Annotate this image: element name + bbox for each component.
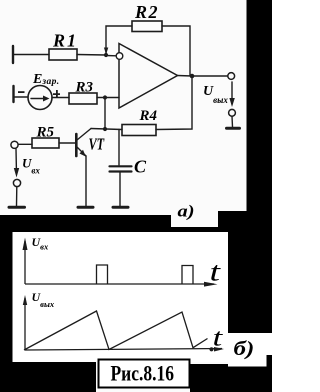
terminal bar R1 input: [12, 46, 14, 63]
sawtooth waveform: [24, 311, 208, 350]
black right band of waveform section: [228, 233, 272, 333]
caption box: [99, 360, 190, 388]
wire opamp output to node: [178, 75, 193, 78]
terminal bar E source: [12, 86, 14, 102]
source E circle: [28, 86, 52, 110]
wire Uin arrow shaft: [15, 149, 18, 174]
axis Uout vertical: [24, 298, 26, 350]
wire R5 to base: [59, 142, 75, 144]
wire output node down to R4: [156, 76, 192, 130]
black left strip of lower section: [0, 232, 13, 392]
arrowhead into inverting node: [104, 48, 108, 55]
transistor emitter arrowhead: [80, 150, 86, 157]
terminal circle Uin bottom: [13, 179, 20, 186]
axis Uin vertical arrowhead: [23, 238, 28, 251]
resistor R5: [32, 138, 59, 148]
svg-text:C: C: [134, 157, 147, 177]
junction dot collector rail: [103, 127, 107, 131]
plus sign at E: [53, 90, 60, 98]
black separator band lower full segment: [171, 227, 272, 234]
wire R2 right leg to output node: [162, 26, 190, 76]
black separator band left segment: [0, 215, 171, 232]
terminal circle Uin top: [11, 141, 18, 148]
svg-text:VT: VT: [89, 136, 105, 154]
axis Uout horizontal dot: [209, 347, 213, 351]
svg-text:R5: R5: [36, 125, 55, 141]
axis Uout horizontal arrowhead: [214, 347, 224, 352]
terminal circle Uout top: [228, 73, 235, 80]
pulse 1: [97, 265, 108, 284]
waveform axes upper: [24, 241, 222, 350]
ground under Uin: [9, 206, 25, 209]
white waveform box: [13, 232, 229, 362]
axis Uin horizontal arrowhead: [204, 282, 218, 287]
wire R3 to noninverting node: [97, 97, 119, 99]
op-amp U1 triangle: [119, 44, 178, 109]
wire cap bottom lead: [119, 173, 121, 207]
capacitor C top plate: [110, 165, 132, 167]
capacitor C bottom plate: [110, 170, 132, 172]
wire input to R1: [14, 54, 49, 56]
ground under Uout: [227, 127, 240, 130]
svg-text:Рис.8.16: Рис.8.16: [111, 361, 175, 386]
resistor R1: [49, 49, 77, 60]
black scan band right of circuit: [247, 0, 273, 233]
axis Uout horizontal: [25, 349, 222, 351]
pulse 2: [182, 266, 193, 285]
wire node down to collector rail: [104, 98, 106, 130]
ground under capacitor: [113, 206, 128, 209]
axis Uin vertical: [24, 241, 26, 284]
wire node to opamp bubble: [106, 55, 116, 57]
Uout arrowhead down: [229, 98, 234, 107]
wire terminal to ground: [16, 187, 18, 206]
ground under emitter: [78, 206, 93, 209]
opamp inverting bubble: [116, 53, 123, 60]
source E arrow shaft: [31, 98, 44, 100]
collector rail wire: [91, 129, 122, 130]
svg-text:R3: R3: [75, 80, 94, 96]
black bottom band left of caption: [0, 362, 96, 392]
black bottom right corner: [228, 367, 272, 392]
black sliver right of b label box: [267, 355, 273, 367]
black bottom band right of caption: [190, 364, 228, 392]
svg-text:а): а): [178, 202, 195, 221]
wire R1 to inverting node: [77, 54, 106, 57]
terminal circle Uout bottom: [229, 109, 236, 116]
resistor R2: [132, 21, 162, 32]
transistor VT collector arm: [77, 129, 91, 141]
svg-text:R2: R2: [134, 2, 159, 22]
junction dot output node: [190, 74, 195, 79]
minus sign at E: [18, 91, 25, 93]
wire bar to source E: [14, 96, 28, 98]
wire terminal to R5: [18, 143, 32, 145]
Uin arrowhead down: [14, 168, 19, 178]
wire E to R3: [52, 97, 69, 99]
wire cap top lead: [118, 130, 120, 166]
wire emitter down: [85, 156, 87, 206]
wire output node to terminal: [192, 75, 228, 77]
wire Uout arrow shaft: [231, 82, 233, 104]
white notch label b area: [228, 333, 272, 367]
wire R2 left leg vertical: [106, 26, 132, 55]
svg-text:R1: R1: [52, 31, 78, 51]
black separator step right of label a: [218, 211, 247, 228]
axis Uin horizontal: [25, 283, 214, 285]
svg-text:б): б): [234, 337, 255, 359]
resistor R4: [122, 125, 156, 136]
wire Uout terminal to ground: [231, 116, 234, 127]
junction dot noninverting node: [103, 95, 107, 99]
svg-text:t: t: [210, 257, 222, 287]
axis Uout vertical arrowhead: [23, 295, 27, 305]
svg-text:R4: R4: [139, 108, 158, 124]
transistor VT base bar: [75, 134, 78, 156]
transistor VT emitter arm: [77, 147, 86, 156]
resistor R3: [69, 93, 97, 104]
junction dot inverting node: [104, 53, 108, 57]
source E arrowhead: [43, 96, 50, 102]
